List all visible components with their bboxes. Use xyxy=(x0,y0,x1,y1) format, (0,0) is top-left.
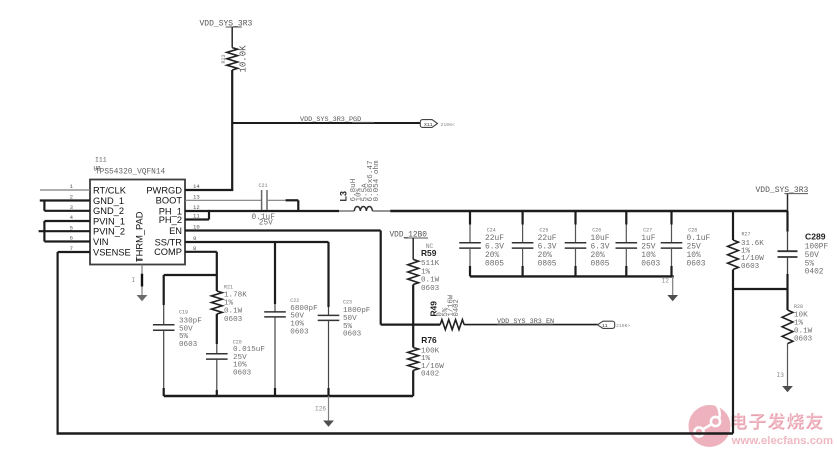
inductor L3 xyxy=(339,210,354,212)
wire pin5 PVIN_2 xyxy=(39,230,90,232)
svg-text:2106>: 2106> xyxy=(616,323,631,329)
svg-text:10K: 10K xyxy=(794,312,808,320)
wire VSENSE feedback bottom xyxy=(57,432,734,434)
svg-text:GND_1: GND_1 xyxy=(93,196,124,206)
wire C23 down xyxy=(328,320,330,388)
svg-text:10.0K: 10.0K xyxy=(239,45,249,73)
wire VSENSE feedback down xyxy=(56,252,58,434)
capacitor C22 xyxy=(264,311,286,313)
svg-text:C21: C21 xyxy=(259,183,268,189)
capacitor C23 xyxy=(318,314,340,316)
svg-text:C19: C19 xyxy=(179,310,188,316)
capacitor C27 xyxy=(625,211,627,225)
wire output rail xyxy=(390,210,788,212)
svg-text:511K: 511K xyxy=(421,260,440,268)
wire THRM_PAD pin segment xyxy=(141,274,143,287)
svg-text:R59: R59 xyxy=(421,248,437,258)
wire R23 to junction xyxy=(231,70,233,123)
svg-text:I11: I11 xyxy=(95,157,107,164)
svg-text:0805: 0805 xyxy=(485,259,504,268)
svg-text:25V: 25V xyxy=(259,220,273,228)
svg-text:R76: R76 xyxy=(421,335,437,345)
svg-text:1800pF: 1800pF xyxy=(343,307,371,315)
svg-text:1%: 1% xyxy=(794,320,804,328)
svg-text:0603: 0603 xyxy=(233,369,252,377)
svg-text:0603: 0603 xyxy=(224,316,243,324)
wire C19 down xyxy=(163,330,165,388)
wire R76 to ground rail xyxy=(412,370,414,396)
wire pin1 RT/CLK xyxy=(40,189,90,191)
wire cap bank ground rail xyxy=(470,275,674,277)
svg-text:0805: 0805 xyxy=(538,259,557,268)
svg-text:VIN: VIN xyxy=(93,237,109,247)
svg-text:R27: R27 xyxy=(742,232,751,238)
svg-text:R23: R23 xyxy=(221,54,227,63)
svg-text:1/16W: 1/16W xyxy=(421,363,444,371)
wire R28 to ground xyxy=(787,344,789,386)
capacitor C19 xyxy=(153,324,175,326)
wire pin12 PH_1 rail xyxy=(185,210,339,212)
svg-text:0402: 0402 xyxy=(805,268,824,277)
wire C22 down xyxy=(274,317,276,388)
wire THRM_PAD to ground xyxy=(141,265,143,296)
watermark text xyxy=(732,413,823,430)
svg-text:C26: C26 xyxy=(592,228,601,234)
svg-text:50V: 50V xyxy=(179,325,193,333)
wire GND loop xyxy=(43,201,45,211)
wire pin11 PH_2 xyxy=(185,218,209,220)
capacitor C20 xyxy=(206,353,228,355)
wire pin6 VIN xyxy=(44,240,90,242)
svg-text:I3: I3 xyxy=(777,372,785,379)
svg-text:10%: 10% xyxy=(233,362,247,370)
svg-text:0603: 0603 xyxy=(290,329,309,337)
wire pin13 BOOT xyxy=(185,199,262,201)
svg-text:0603: 0603 xyxy=(179,341,198,349)
svg-text:PVIN_1: PVIN_1 xyxy=(93,216,125,226)
svg-text:0603: 0603 xyxy=(687,259,706,268)
wire pin7 VSENSE xyxy=(58,251,90,253)
svg-text:VDD_SYS_3R3_PGD: VDD_SYS_3R3_PGD xyxy=(300,116,361,124)
svg-text:www.elecfans.com: www.elecfans.com xyxy=(730,434,833,446)
wire comp ground rail xyxy=(164,395,414,397)
watermark logo circle xyxy=(689,401,731,448)
svg-text:5%: 5% xyxy=(343,323,353,331)
svg-text:I: I xyxy=(132,277,136,284)
svg-text:X11: X11 xyxy=(424,122,433,128)
resistor R28 xyxy=(786,289,788,310)
wire pin10 EN xyxy=(185,229,381,231)
svg-text:10%: 10% xyxy=(290,321,304,329)
ground THRM_PAD xyxy=(137,295,148,301)
svg-text:RT/CLK: RT/CLK xyxy=(93,185,127,195)
svg-text:C22: C22 xyxy=(290,298,299,304)
svg-text:PVIN_2: PVIN_2 xyxy=(93,227,125,237)
off-page connector PGD xyxy=(420,120,437,128)
svg-text:25V: 25V xyxy=(233,354,247,362)
svg-text:VSENSE: VSENSE xyxy=(93,247,131,257)
svg-text:11: 11 xyxy=(602,323,608,329)
wire C20 down xyxy=(216,359,218,390)
wire PWRGD vertical xyxy=(231,123,233,190)
wire R49 to connector xyxy=(464,324,598,326)
svg-text:COMP: COMP xyxy=(154,247,182,257)
wire R27 to fb node xyxy=(732,270,734,290)
svg-text:TPS54320_VQFN14: TPS54320_VQFN14 xyxy=(95,169,166,177)
wire VDD_SYS_3R3_PGD xyxy=(232,122,421,124)
wire PVIN loop xyxy=(43,221,45,242)
wire pin9 SS/TR xyxy=(185,241,329,243)
svg-text:PWRGD: PWRGD xyxy=(146,185,182,195)
svg-text:SS/TR: SS/TR xyxy=(155,237,183,247)
svg-text:0603: 0603 xyxy=(641,259,660,268)
svg-text:GND_2: GND_2 xyxy=(93,206,124,216)
svg-text:1%: 1% xyxy=(421,355,431,363)
svg-text:0603: 0603 xyxy=(741,263,760,271)
svg-text:THRM_PAD: THRM_PAD xyxy=(135,211,145,262)
U8 pin 15 tick xyxy=(136,259,143,261)
svg-text:2106<: 2106< xyxy=(441,122,456,128)
capacitor C289 xyxy=(786,211,788,232)
resistor R27 xyxy=(732,211,734,240)
wire VDD to R23 xyxy=(231,27,233,48)
svg-text:C24: C24 xyxy=(487,228,496,234)
svg-text:100K: 100K xyxy=(421,347,440,355)
resistor R21 xyxy=(211,291,222,314)
svg-text:50V: 50V xyxy=(343,315,357,323)
off-page connector EN xyxy=(598,321,615,328)
svg-text:PH_2: PH_2 xyxy=(159,215,182,225)
svg-text:330pF: 330pF xyxy=(179,318,202,326)
svg-text:0.015uF: 0.015uF xyxy=(233,346,265,354)
wire to C22 xyxy=(274,242,276,304)
svg-text:0402: 0402 xyxy=(453,299,461,316)
svg-text:1%: 1% xyxy=(224,300,234,308)
svg-text:0603: 0603 xyxy=(421,285,440,293)
wire pin4 PVIN_1 xyxy=(44,220,90,222)
svg-text:C28: C28 xyxy=(688,228,697,234)
svg-text:13: 13 xyxy=(193,194,200,201)
resistor R49 xyxy=(413,324,440,326)
op-amp U8 TPS54320_VQFN14 body xyxy=(90,180,185,265)
capacitor C21 xyxy=(261,190,263,210)
svg-text:5%: 5% xyxy=(179,333,189,341)
svg-text:0603: 0603 xyxy=(343,331,362,339)
svg-text:I26: I26 xyxy=(315,406,326,413)
capacitor C28 xyxy=(670,211,672,225)
svg-text:0.1W: 0.1W xyxy=(794,328,813,336)
svg-text:0402: 0402 xyxy=(421,371,440,379)
svg-text:C289: C289 xyxy=(805,231,826,241)
wire BOOT to PH elbow xyxy=(267,199,286,201)
wire pin14 PWRGD xyxy=(185,189,233,191)
wire R21 to C20 xyxy=(216,314,218,344)
svg-text:1.78K: 1.78K xyxy=(224,292,247,300)
resistor R59 xyxy=(408,259,419,284)
wire pin3 GND_2 xyxy=(44,210,90,212)
resistor R76 xyxy=(412,325,414,348)
svg-text:L3: L3 xyxy=(339,191,349,202)
svg-text:C27: C27 xyxy=(643,228,652,234)
svg-text:R28: R28 xyxy=(794,304,803,310)
capacitor C25 xyxy=(521,211,523,225)
wire fb node rail xyxy=(733,288,788,290)
svg-text:0603: 0603 xyxy=(794,336,813,344)
svg-text:0.1W: 0.1W xyxy=(421,277,440,285)
svg-text:VDD_SYS_3R3_EN: VDD_SYS_3R3_EN xyxy=(497,318,554,326)
wire R59 to junction xyxy=(412,285,414,325)
svg-text:C20: C20 xyxy=(233,340,242,346)
svg-text:50V: 50V xyxy=(290,313,304,321)
svg-text:R21: R21 xyxy=(224,285,233,291)
wire to C23 xyxy=(327,242,329,307)
svg-text:0.054 ohm: 0.054 ohm xyxy=(373,160,381,201)
svg-text:BOOT: BOOT xyxy=(156,196,183,206)
wire feedback up to divider xyxy=(732,289,734,434)
wire pin8 COMP xyxy=(185,251,217,253)
svg-text:EN: EN xyxy=(169,226,182,236)
svg-text:I2: I2 xyxy=(662,278,670,285)
svg-text:C25: C25 xyxy=(539,228,548,234)
wire C19 branch xyxy=(164,274,217,276)
wire VDD_12B0 to R59 xyxy=(412,238,414,259)
svg-text:6800pF: 6800pF xyxy=(290,305,318,313)
svg-text:1%: 1% xyxy=(421,268,431,276)
resistor R23 xyxy=(227,48,238,70)
wire pin2 GND_1 xyxy=(40,199,90,201)
svg-text:0805: 0805 xyxy=(591,259,610,268)
svg-text:0.1W: 0.1W xyxy=(224,308,243,316)
svg-text:C23: C23 xyxy=(343,300,352,306)
capacitor C26 xyxy=(574,211,576,225)
capacitor C24 xyxy=(469,211,471,225)
